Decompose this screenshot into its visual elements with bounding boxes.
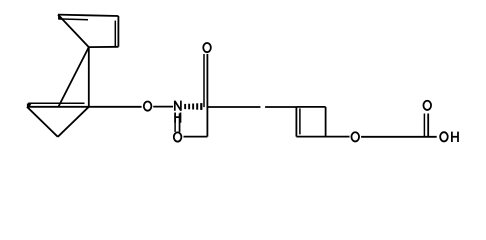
- bond triangle right side: [58, 107, 89, 137]
- atom O5 carbonyl right: [423, 101, 431, 110]
- bond spiro vertical: [88, 47, 90, 107]
- hashed wedge N-C: [184, 103, 202, 110]
- bond chain2: [265, 106, 296, 108]
- bond N=O2 ring left line2: [179, 113, 181, 131]
- atom O1 ether left: [144, 102, 152, 111]
- bond ring1 right C=C main: [117, 16, 119, 47]
- bond C2=O5 main: [427, 114, 429, 137]
- atom O2 ring: [174, 132, 182, 141]
- bond ring2 top: [296, 106, 325, 108]
- bond ring1 top-right: [88, 14, 118, 17]
- bond CH2-C ring right vertical with C=O3 main: [206, 54, 208, 137]
- bond ring1 left diagonal: [58, 15, 89, 48]
- bond C=O3 second line: [203, 54, 205, 107]
- bond C-chain1: [207, 106, 260, 108]
- atom O6 hydroxyl O: [440, 132, 448, 141]
- bond N=O2 ring left line1: [174, 113, 176, 131]
- bond ring2 right: [325, 107, 327, 137]
- bond spiro diagonal: [59, 47, 89, 106]
- bond ring1 top-left C=C main: [58, 14, 88, 17]
- bond O2-CH2 ring bottom: [184, 136, 208, 138]
- bond O4-C2-O6H: [361, 136, 437, 138]
- atom O4 ether right: [351, 132, 359, 141]
- bond C2=O5 second: [423, 114, 425, 137]
- bond ring2 left C=C main: [295, 107, 297, 137]
- bond ring1 bottom: [89, 46, 119, 48]
- bond ring2 left C=C inner: [299, 108, 301, 134]
- atom H of hydroxyl: [452, 132, 458, 142]
- atom H on N: [175, 113, 180, 123]
- bond ring2 bottom and bond to O4: [296, 136, 349, 138]
- triangle corner L joint fill: [27, 104, 32, 108]
- bond triangle top C=C main and bond to O1: [27, 106, 142, 108]
- bond triangle top C=C outer line: [28, 102, 84, 104]
- atom N: [175, 101, 181, 111]
- atom O3 carbonyl top: [203, 43, 211, 52]
- bond O1-N: [153, 106, 173, 108]
- bond triangle left side: [27, 107, 58, 137]
- bond ring1 top-left C=C inner: [58, 18, 88, 21]
- ring1 corner A joint fill: [58, 15, 62, 20]
- bond ring1 right C=C inner: [114, 21, 116, 47]
